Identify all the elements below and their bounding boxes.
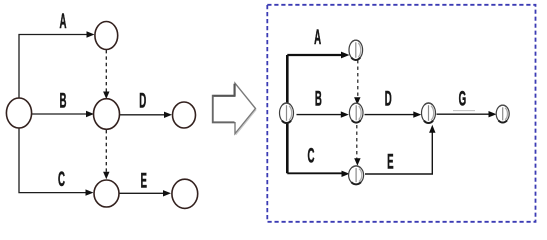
svg-text:C: C	[58, 166, 65, 191]
svg-text:A: A	[314, 24, 321, 49]
svg-text:B: B	[315, 86, 322, 111]
svg-text:E: E	[387, 149, 393, 174]
svg-text:D: D	[139, 88, 146, 113]
svg-text:A: A	[60, 9, 67, 34]
svg-text:G: G	[459, 86, 467, 111]
svg-text:E: E	[140, 168, 146, 193]
svg-text:B: B	[60, 88, 67, 113]
svg-text:C: C	[308, 143, 315, 168]
svg-text:D: D	[385, 86, 392, 111]
